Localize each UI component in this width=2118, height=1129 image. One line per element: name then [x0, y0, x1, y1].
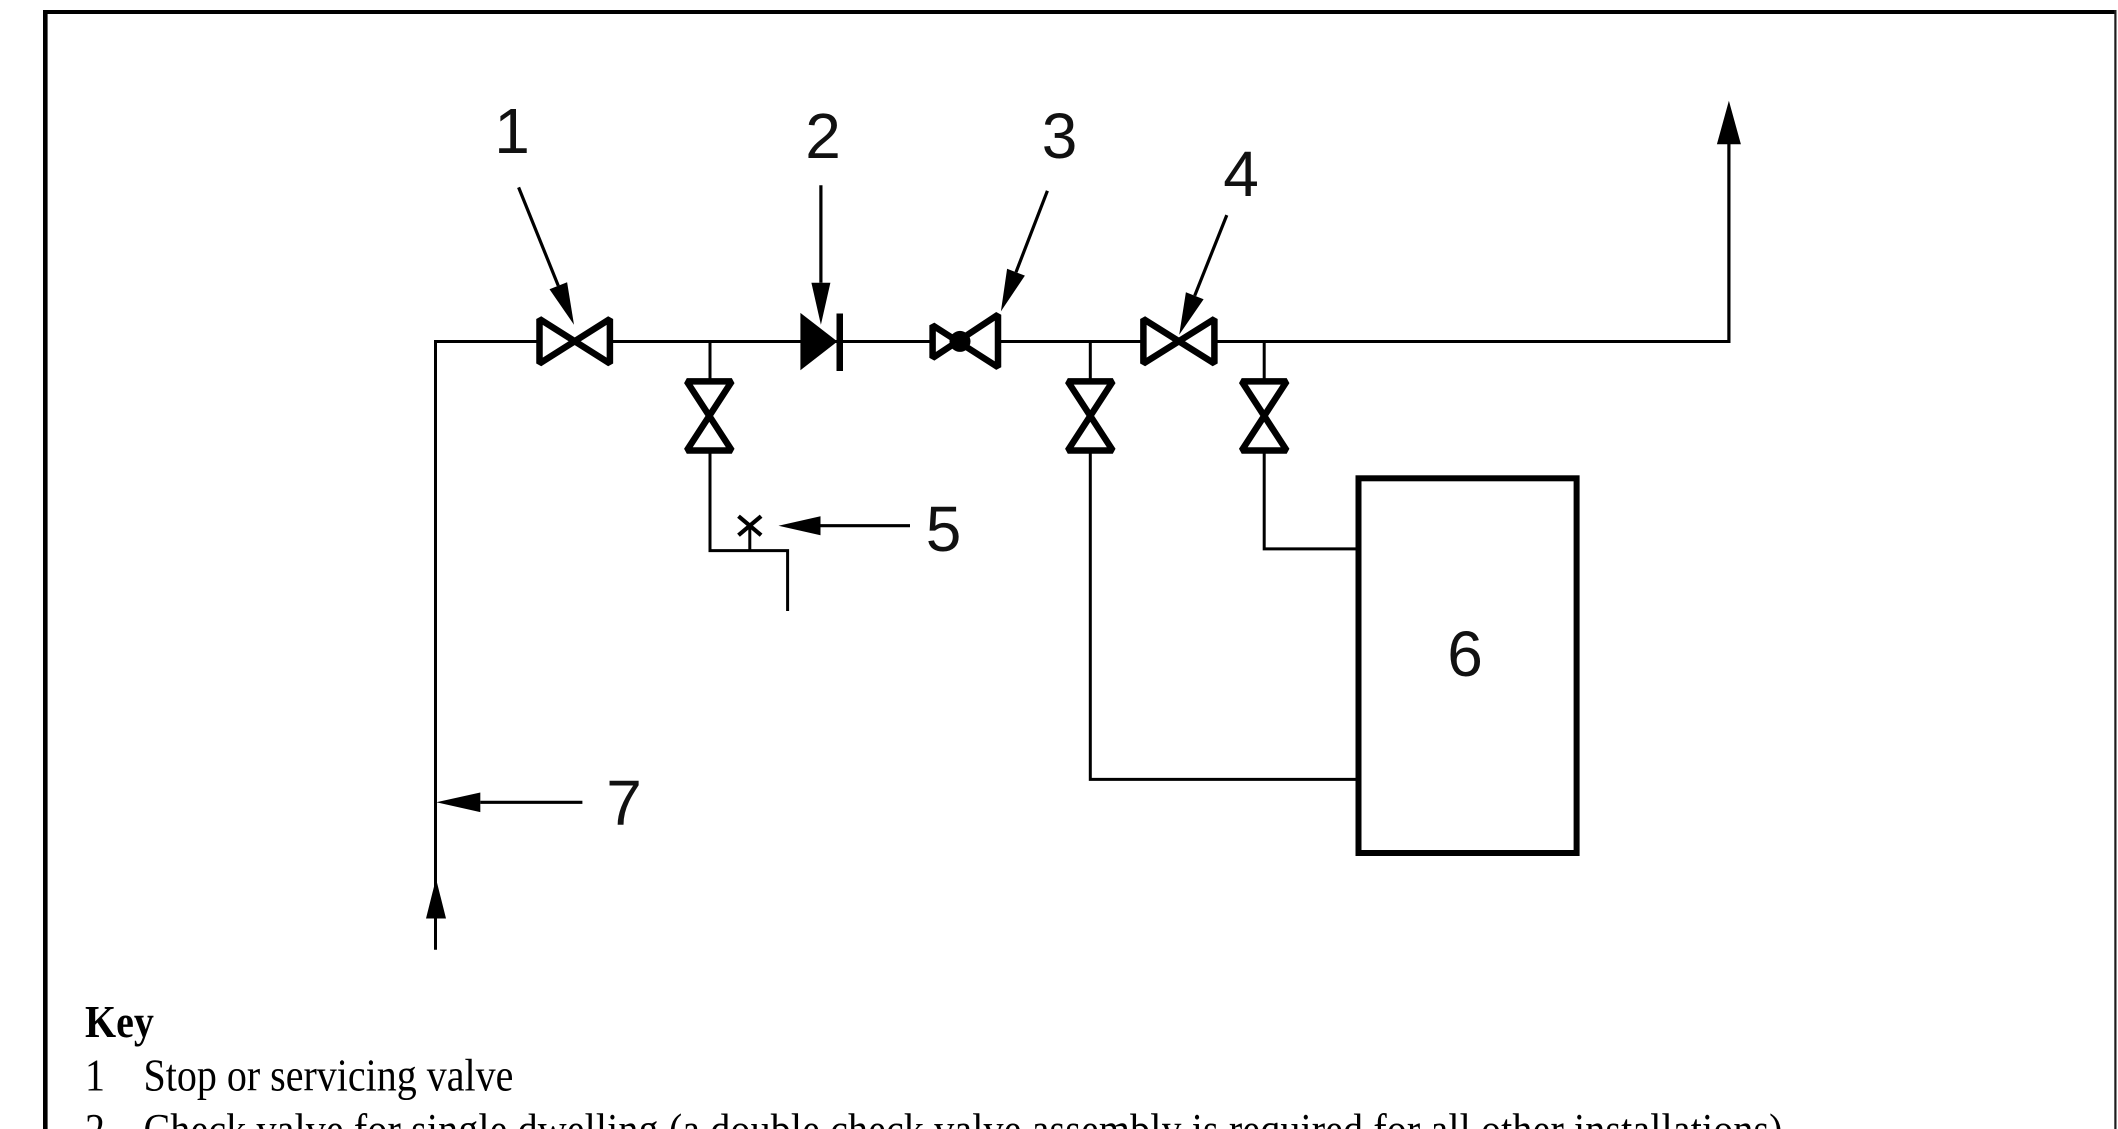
supply riser pipe (vertical left leg) [434, 342, 437, 950]
key item 1 text [144, 1051, 514, 1101]
water heater 6 (box) [1359, 478, 1577, 853]
label 7 arrow [480, 801, 582, 804]
check valve 2 seat bar [837, 314, 844, 372]
key item 2 number [85, 1105, 105, 1129]
outlet arrowhead [1717, 101, 1741, 145]
frame border top [43, 10, 2116, 14]
key item 2 text [144, 1105, 1783, 1129]
key heading [85, 997, 154, 1047]
vent branch lower pipe [1264, 454, 1357, 549]
svg-text:Key: Key [85, 997, 154, 1047]
label 2 arrowhead [811, 283, 830, 325]
key item 1 number [85, 1051, 105, 1101]
svg-text:7: 7 [606, 767, 642, 839]
main horizontal pipe segment C [1000, 340, 1142, 343]
label 5 arrow [821, 524, 911, 527]
vent branch drop pipe [1263, 342, 1266, 380]
cold feed branch lower pipe [1090, 454, 1357, 780]
vent branch valve (vertical bowtie) [1242, 381, 1287, 450]
valve 3 ball [950, 331, 971, 352]
label 3 arrow [1016, 191, 1047, 272]
svg-text:2: 2 [805, 100, 841, 172]
cold feed branch drop pipe [1089, 342, 1092, 380]
cold feed branch valve (vertical bowtie) [1068, 381, 1113, 450]
main horizontal pipe segment D [1216, 340, 1729, 343]
svg-text:5: 5 [926, 493, 962, 565]
main horizontal pipe segment A [434, 340, 539, 343]
outlet riser pipe (vertical, right) [1727, 140, 1730, 343]
label 1 arrow [519, 187, 559, 285]
label 1 arrowhead [550, 282, 575, 325]
frame border left [43, 10, 48, 1129]
svg-text:Check valve for single dwellin: Check valve for single dwelling (a doubl… [144, 1105, 1783, 1129]
main horizontal pipe segment B [611, 340, 931, 343]
frame border right [2114, 10, 2116, 1129]
drain cock 5 (cross symbol) [739, 516, 762, 550]
svg-text:3: 3 [1042, 100, 1078, 172]
drain branch drop pipe [709, 342, 712, 380]
svg-text:1: 1 [85, 1051, 105, 1101]
stop valve 4 (bowtie) [1143, 319, 1214, 364]
drain branch lower pipe [710, 454, 788, 612]
label 5 arrowhead [779, 516, 821, 535]
valve 3 body (unequal bowtie) [933, 315, 998, 368]
stop valve 1 (bowtie) [540, 319, 610, 364]
svg-text:Stop or servicing valve: Stop or servicing valve [144, 1051, 514, 1101]
drain branch valve (vertical bowtie) [687, 381, 732, 450]
label 2 arrow [819, 185, 822, 283]
flow arrowhead on supply riser [426, 879, 446, 919]
svg-text:1: 1 [494, 95, 530, 167]
svg-text:2: 2 [85, 1105, 105, 1129]
svg-text:6: 6 [1447, 618, 1483, 690]
label 4 arrowhead [1179, 292, 1203, 335]
check valve 2 (filled triangle with bar) [800, 313, 837, 370]
label 4 arrow [1195, 215, 1227, 296]
label 3 arrowhead [1001, 269, 1025, 312]
label 7 arrowhead [436, 793, 480, 813]
svg-text:4: 4 [1223, 138, 1259, 210]
